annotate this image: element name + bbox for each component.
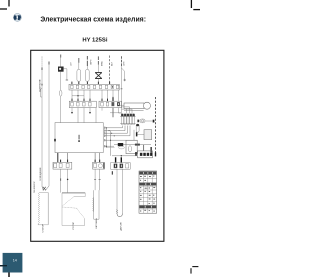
wires X6 down	[61, 169, 69, 192]
fuse F1	[59, 90, 62, 122]
connector X3 strip right	[99, 97, 122, 107]
transformer T1 ignition coil	[95, 56, 102, 84]
node junction wires W1 W2	[42, 186, 49, 191]
wires CN2 top	[110, 105, 132, 113]
legend table	[139, 171, 157, 213]
junction dots	[106, 127, 115, 146]
wire with ferrite	[114, 143, 152, 153]
svg-text:ЧЕРН: ЧЕРН	[91, 59, 93, 65]
inverter unit U1	[54, 123, 103, 153]
sensor B1 capsule	[136, 124, 139, 132]
node W1 loop	[41, 84, 43, 97]
lighting coil L3	[116, 169, 122, 217]
wire lamp feed	[121, 56, 123, 115]
U1 output wires to CN2	[105, 126, 138, 156]
control unit A2	[136, 130, 152, 140]
svg-text:КРАС: КРАС	[100, 60, 103, 66]
wire branch to ground stub	[64, 69, 69, 80]
svg-text:Электрическая схема изделия:: Электрическая схема изделия:	[40, 16, 146, 23]
winding L4 aux	[93, 190, 99, 219]
label wire colors rotated	[71, 59, 126, 66]
diode D1	[77, 58, 81, 84]
crop mark top-right	[191, 0, 200, 10]
connector X4	[111, 163, 131, 175]
svg-text:ГЕНЕРАТОР: ГЕНЕРАТОР	[33, 181, 36, 193]
relay K1	[126, 140, 137, 153]
connector X5 block	[135, 151, 156, 158]
starter motor M1	[124, 102, 151, 110]
svg-text:СИН: СИН	[123, 61, 125, 66]
crop mark top-left	[0, 0, 9, 9]
svg-text:РОТОР: РОТОР	[73, 221, 75, 229]
page number block	[3, 253, 23, 273]
wires X7 down	[94, 169, 101, 190]
winding L1 charge coil	[38, 193, 48, 225]
resistor R1 small	[106, 146, 124, 149]
crop mark bottom-right	[191, 267, 198, 274]
wire dashed stub	[109, 56, 111, 85]
crop mark bottom-left	[0, 266, 9, 277]
legend table entries	[139, 172, 156, 212]
connector X6 under inverter left	[53, 153, 72, 169]
crop mark bottom-left overlay	[0, 265, 7, 267]
diode D2	[86, 56, 90, 84]
schematic frame	[31, 50, 164, 241]
connector CN2 block	[120, 114, 135, 125]
connector X1 strip	[69, 82, 119, 90]
svg-text:СТАТОР: СТАТОР	[42, 224, 45, 233]
svg-text:14: 14	[13, 258, 17, 262]
wire bus to X4	[112, 155, 137, 162]
connector X2 strip left	[69, 99, 96, 108]
brand logo	[14, 14, 22, 22]
svg-text:ЗАЖИГАНИЕ: ЗАЖИГАНИЕ	[39, 79, 42, 92]
wire battery-minus vertical left	[48, 62, 50, 187]
wires X2 to inverter	[71, 108, 121, 123]
svg-text:HY 125Si: HY 125Si	[82, 38, 107, 44]
wire battery-plus vertical left	[41, 57, 43, 187]
capacitor C1	[137, 119, 154, 123]
wires X1 to X2	[72, 90, 119, 101]
connector X7 under inverter right	[93, 153, 105, 169]
svg-text:КАТУШКА: КАТУШКА	[95, 218, 98, 229]
winding L2 main stator	[62, 193, 85, 226]
wire branch with terminal	[122, 68, 126, 81]
svg-text:БЕЛ: БЕЛ	[112, 61, 114, 66]
enclosure boundary dashed	[155, 97, 157, 154]
svg-text:ОСВЕЩЕНИЕ: ОСВЕЩЕНИЕ	[40, 167, 42, 181]
switch SW1 ignition	[58, 55, 64, 91]
svg-text:ДАТЧИК: ДАТЧИК	[120, 221, 123, 230]
